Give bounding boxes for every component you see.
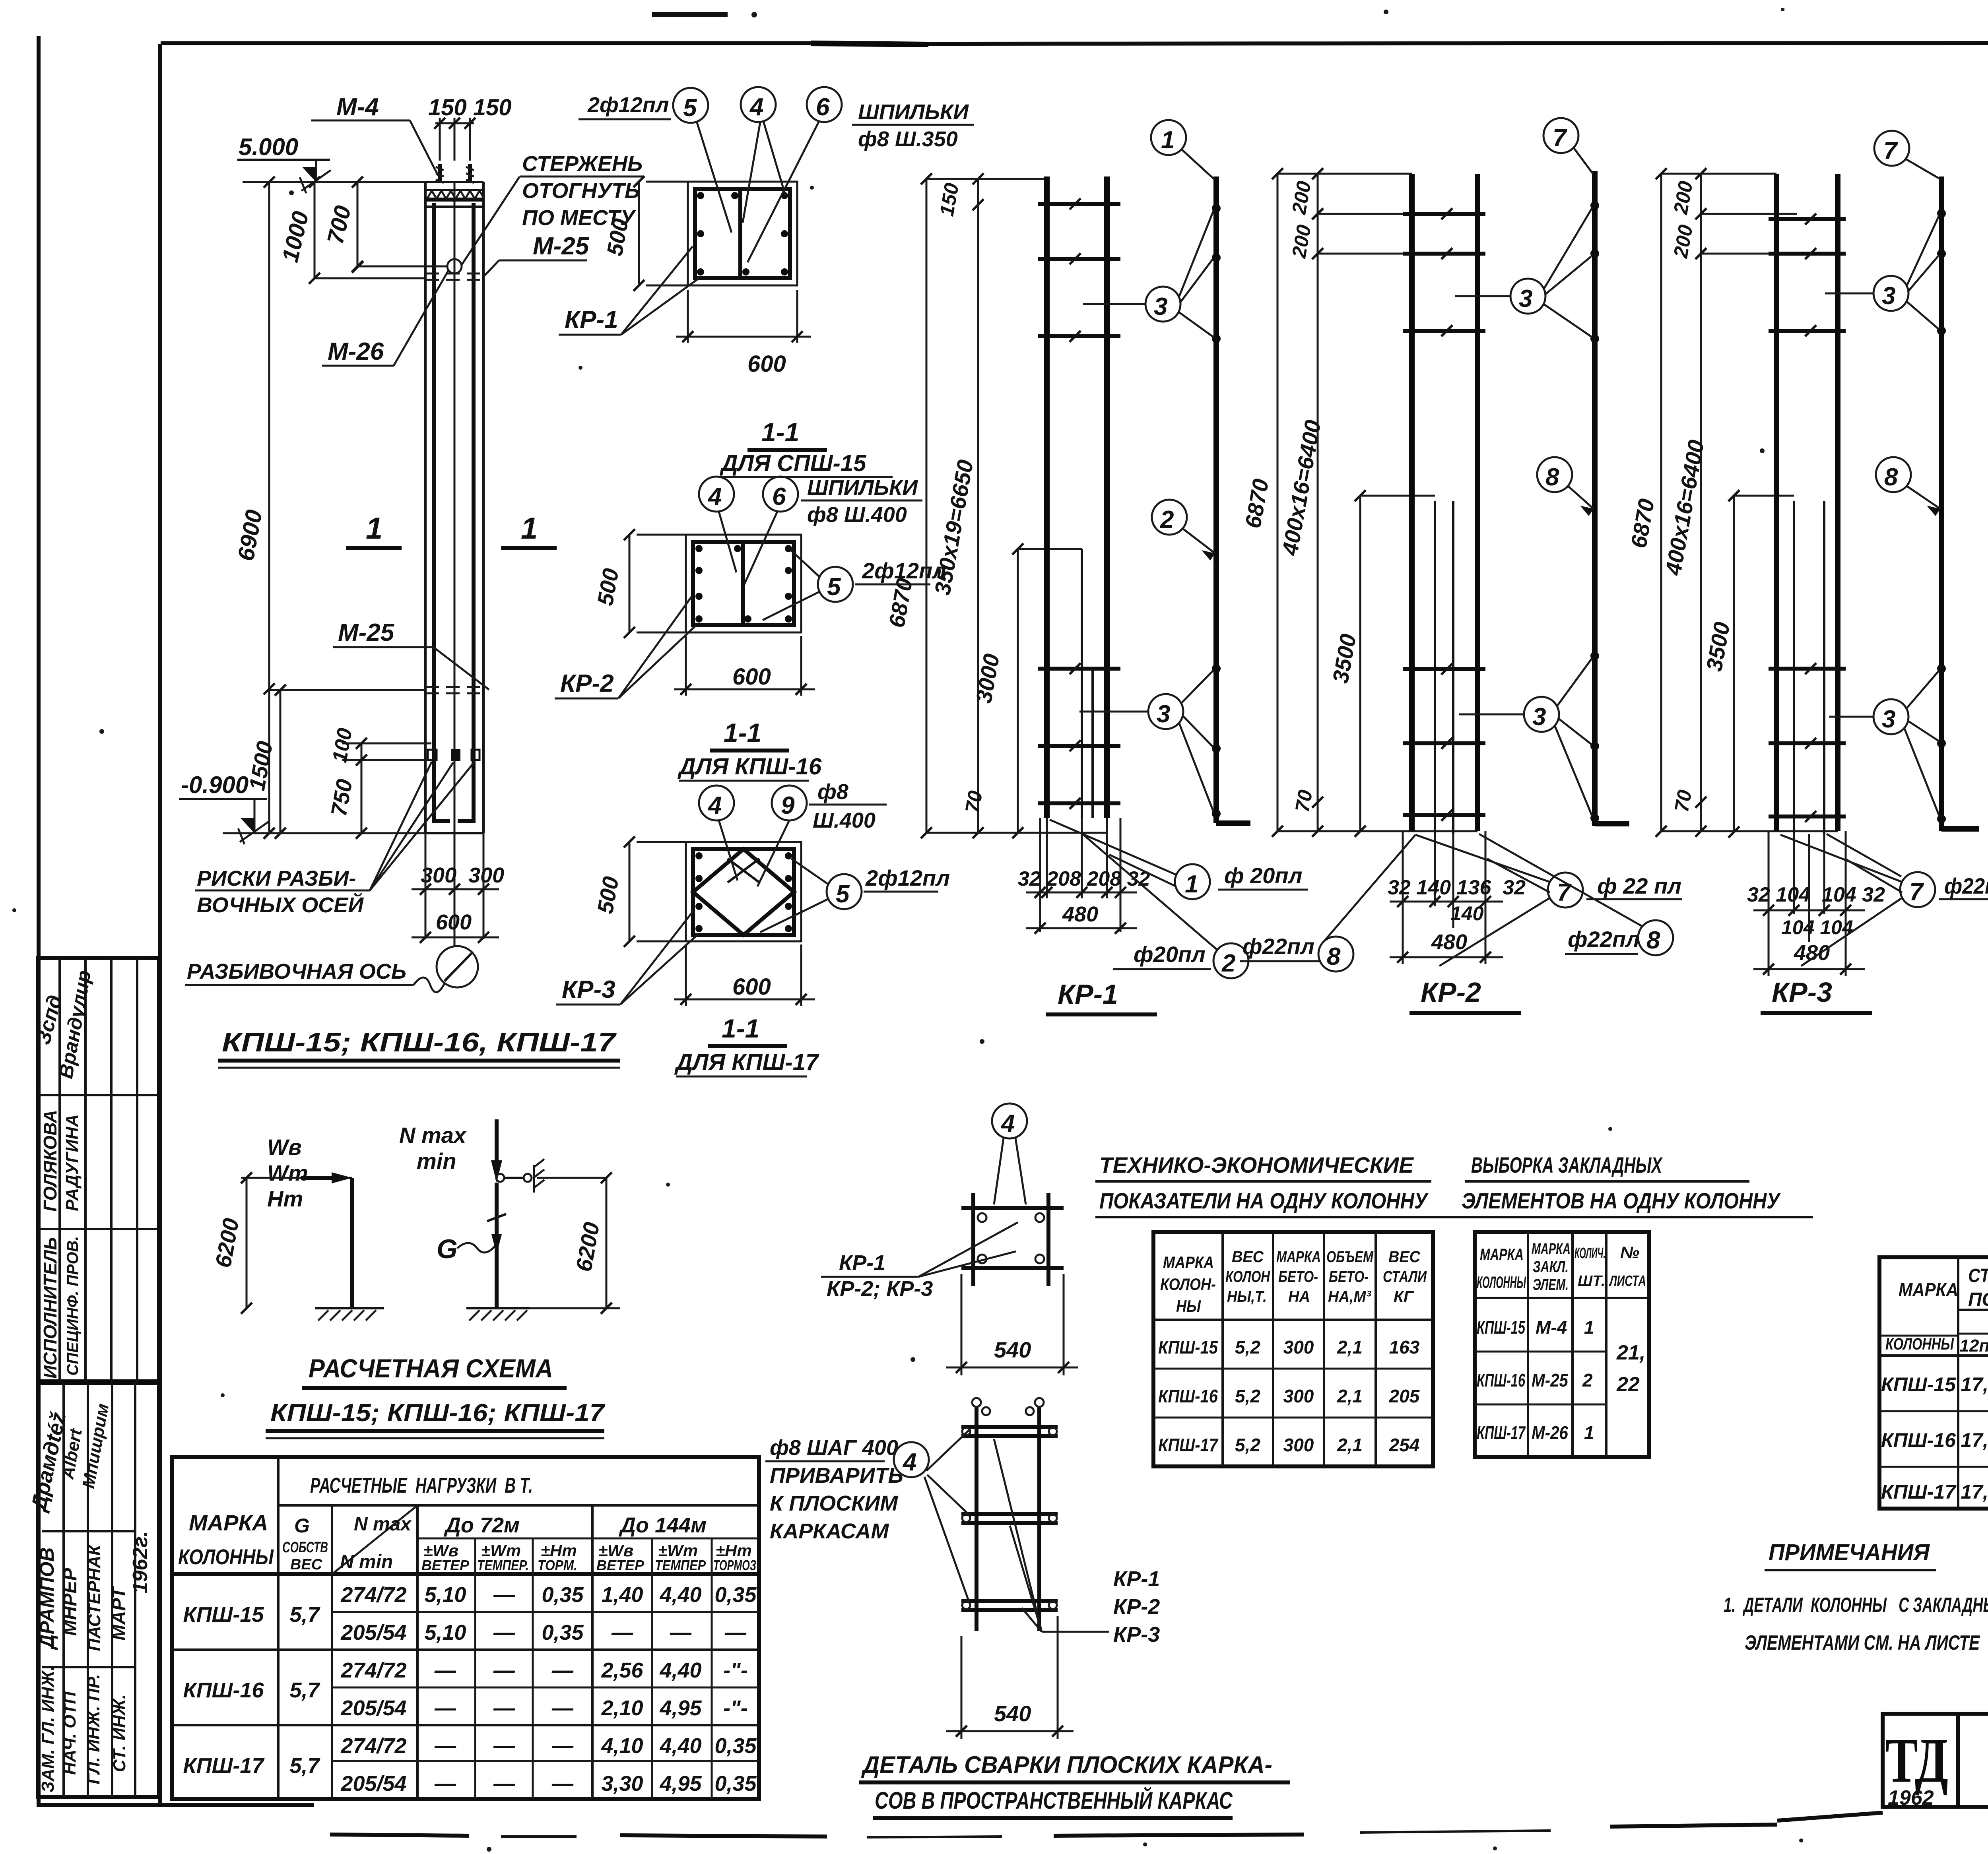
svg-text:300 300: 300 300 [421, 863, 504, 887]
rebar lines inside column [432, 203, 436, 775]
svg-text:ДЛЯ КПШ-16: ДЛЯ КПШ-16 [677, 754, 822, 780]
svg-text:274/72: 274/72 [340, 1583, 406, 1607]
circle 3 bottom [1148, 694, 1183, 729]
bottom dims 32 104 104 32 / 104 104 / 480 [1768, 831, 1770, 976]
svg-text:М-4: М-4 [1536, 1317, 1567, 1338]
bottom dims 32 208 208 32 / 480 [1039, 818, 1041, 932]
svg-text:СТАЛЬ КЛАССА А-Ш: СТАЛЬ КЛАССА А-Ш [1968, 1265, 1988, 1286]
svg-text:СТАЛИ: СТАЛИ [1383, 1268, 1427, 1286]
svg-text:КПШ-16: КПШ-16 [1881, 1429, 1956, 1451]
svg-text:ф8 ШАГ 400: ф8 ШАГ 400 [770, 1436, 898, 1460]
svg-text:254: 254 [1389, 1435, 1420, 1455]
svg-text:РАДУГИНА: РАДУГИНА [62, 1114, 82, 1211]
svg-text:РИСКИ РАЗБИ-: РИСКИ РАЗБИ- [197, 867, 356, 890]
svg-text:32 140 136 32: 32 140 136 32 [1388, 876, 1526, 899]
svg-text:ДЕТАЛЬ СВАРКИ ПЛОСКИХ КАРКА-: ДЕТАЛЬ СВАРКИ ПЛОСКИХ КАРКА- [861, 1751, 1272, 1778]
svg-text:2ф12пл: 2ф12пл [587, 93, 669, 117]
design loads table (РАСЧЕТНЫЕ НАГРУЗКИ В Т.) [172, 1457, 759, 1799]
dim 100 + 750 [361, 743, 363, 833]
svg-text:205/54: 205/54 [340, 1621, 406, 1645]
svg-text:ЗАКЛ.: ЗАКЛ. [1533, 1258, 1569, 1276]
svg-text:600: 600 [732, 664, 771, 690]
svg-text:КПШ-17: КПШ-17 [183, 1754, 265, 1778]
svg-text:ЭЛЕМ.: ЭЛЕМ. [1533, 1276, 1569, 1294]
svg-text:КПШ-16: КПШ-16 [183, 1678, 264, 1702]
svg-text:КР-1: КР-1 [1113, 1567, 1160, 1591]
svg-text:КАРКАСАМ: КАРКАСАМ [770, 1519, 889, 1543]
dim 6900 [268, 182, 270, 833]
svg-text:17,3: 17,3 [1961, 1481, 1988, 1503]
svg-text:600: 600 [732, 974, 771, 1000]
svg-text:300: 300 [1283, 1337, 1314, 1358]
svg-text:КПШ-17: КПШ-17 [1158, 1435, 1219, 1455]
svg-text:600: 600 [436, 910, 472, 934]
rungs [1038, 204, 1120, 803]
svg-text:5,10: 5,10 [424, 1583, 466, 1607]
svg-text:1: 1 [366, 512, 382, 545]
svg-text:5,2: 5,2 [1235, 1435, 1260, 1455]
svg-text:4,40: 4,40 [659, 1583, 701, 1607]
svg-text:0,35: 0,35 [542, 1583, 584, 1607]
dim 600 [685, 944, 687, 1006]
svg-text:—: — [551, 1772, 574, 1796]
svg-text:МАРКА: МАРКА [1899, 1279, 1958, 1300]
svg-text:1962: 1962 [1888, 1786, 1934, 1809]
svg-text:1. ДЕТАЛИ КОЛОННЫ С ЗАКЛАД: 1. ДЕТАЛИ КОЛОННЫ С ЗАКЛАДНЫМИ [1724, 1594, 1988, 1617]
svg-text:—: — [493, 1621, 515, 1645]
data rows [1881, 1373, 1988, 1503]
dim 1000 [314, 182, 316, 278]
svg-text:—: — [434, 1696, 456, 1720]
М-26 embed circle [447, 259, 462, 273]
svg-text:М-25: М-25 [1532, 1370, 1569, 1390]
dim 500 [629, 535, 631, 632]
svg-text:—: — [493, 1583, 515, 1607]
svg-text:СОВ В ПРОСТРАНСТВЕННЫЙ КАРКАС: СОВ В ПРОСТРАНСТВЕННЫЙ КАРКАС [875, 1787, 1233, 1814]
svg-text:ТЕХНИКО-ЭКОНОМИЧЕСКИЕ: ТЕХНИКО-ЭКОНОМИЧЕСКИЕ [1099, 1152, 1414, 1177]
svg-text:МАРКА: МАРКА [1276, 1248, 1321, 1266]
svg-text:КПШ-16: КПШ-16 [1477, 1370, 1525, 1390]
svg-text:7: 7 [1909, 879, 1924, 906]
svg-text:7: 7 [1883, 137, 1898, 165]
svg-text:0,35: 0,35 [714, 1772, 757, 1796]
svg-text:—: — [493, 1772, 515, 1796]
cage КР-3 elevation [1626, 131, 1988, 1013]
svg-text:N min: N min [340, 1551, 393, 1573]
title расчетная схема [266, 1354, 606, 1438]
svg-text:ДРАМПОВ: ДРАМПОВ [36, 1547, 58, 1650]
svg-text:ДЛЯ КПШ-17: ДЛЯ КПШ-17 [674, 1049, 819, 1075]
svg-text:2ф12пл: 2ф12пл [865, 865, 950, 890]
svg-text:СОБСТВ: СОБСТВ [282, 1539, 328, 1556]
svg-text:РАЗБИВОЧНАЯ ОСЬ: РАЗБИВОЧНАЯ ОСЬ [187, 960, 406, 983]
svg-text:—: — [611, 1621, 633, 1645]
svg-text:1-1: 1-1 [724, 718, 761, 747]
embedded elements table [1456, 1152, 1813, 1457]
splice thin bars [1081, 549, 1083, 818]
svg-text:М-4: М-4 [336, 93, 379, 121]
dashed М-25 plate bottom [425, 687, 483, 693]
leader circle 1 bottom + ф 20пл [1175, 864, 1210, 899]
svg-text:КПШ-17: КПШ-17 [1881, 1481, 1957, 1503]
svg-text:ВЕТЕР: ВЕТЕР [596, 1557, 645, 1573]
svg-text:8: 8 [1646, 927, 1660, 954]
svg-text:ГОЛЯКОВА: ГОЛЯКОВА [40, 1110, 60, 1212]
svg-text:КПШ-15: КПШ-15 [1477, 1317, 1526, 1338]
svg-text:0,35: 0,35 [714, 1734, 757, 1758]
cage КР-1 elevation [884, 120, 1415, 1014]
svg-text:17,3: 17,3 [1961, 1373, 1988, 1396]
svg-text:1-1: 1-1 [761, 417, 799, 447]
svg-text:КПШ-15; КПШ-16; КПШ-17: КПШ-15; КПШ-16; КПШ-17 [270, 1399, 606, 1427]
svg-text:3: 3 [1882, 282, 1895, 310]
svg-text:КР-3: КР-3 [1772, 977, 1832, 1008]
svg-text:3: 3 [1157, 700, 1170, 728]
svg-text:300: 300 [1283, 1386, 1314, 1406]
svg-text:1: 1 [1584, 1317, 1594, 1338]
svg-text:КР-3: КР-3 [562, 976, 615, 1003]
svg-text:-"-: -"- [723, 1658, 748, 1682]
circle 1 top [1151, 120, 1186, 155]
section 1-1 for КПШ-17 [556, 780, 950, 1076]
svg-text:БЕТО-: БЕТО- [1278, 1268, 1318, 1286]
svg-text:ТД: ТД [1885, 1725, 1948, 1796]
svg-text:КР-1: КР-1 [839, 1251, 885, 1275]
svg-text:КОЛОННЫ: КОЛОННЫ [178, 1545, 274, 1569]
svg-text:4: 4 [707, 483, 722, 510]
svg-text:5: 5 [836, 880, 850, 908]
svg-text:600: 600 [747, 351, 786, 377]
svg-text:3: 3 [1154, 293, 1167, 320]
svg-text:КР-2; КР-3: КР-2; КР-3 [827, 1277, 933, 1301]
svg-text:3: 3 [1519, 285, 1532, 312]
svg-text:4,10: 4,10 [601, 1734, 643, 1758]
bottom dims 32 140 136 32 / 140 / 480 [1402, 831, 1404, 964]
svg-text:КПШ-15: КПШ-15 [183, 1603, 264, 1627]
svg-text:104 104: 104 104 [1781, 916, 1853, 939]
svg-text:ф20пл: ф20пл [1134, 942, 1206, 967]
svg-text:ф8: ф8 [817, 780, 848, 804]
svg-text:КОЛИЧ.: КОЛИЧ. [1574, 1245, 1606, 1262]
svg-text:ШТ.: ШТ. [1578, 1273, 1606, 1290]
svg-text:М-26: М-26 [328, 338, 384, 365]
dim 500 [629, 842, 631, 941]
svg-text:540: 540 [994, 1337, 1031, 1362]
svg-text:ВЕТЕР: ВЕТЕР [421, 1557, 470, 1573]
svg-text:4,95: 4,95 [659, 1772, 702, 1796]
svg-text:1: 1 [1185, 871, 1198, 898]
svg-text:480: 480 [1794, 941, 1830, 965]
svg-text:ПАСТЕРНАК: ПАСТЕРНАК [85, 1544, 104, 1651]
svg-text:—: — [670, 1621, 692, 1645]
svg-text:5: 5 [683, 94, 697, 122]
svg-text:5,7: 5,7 [289, 1678, 320, 1702]
svg-text:КР-2: КР-2 [1113, 1595, 1160, 1619]
spatial cage welding detail (bottom) [765, 1398, 1290, 1818]
diamond [693, 849, 794, 935]
svg-text:ПО ГОСТ 5781- 61: ПО ГОСТ 5781- 61 [1968, 1289, 1988, 1310]
svg-text:32 104 104 32: 32 104 104 32 [1747, 883, 1885, 906]
svg-text:МАРКА: МАРКА [1480, 1245, 1524, 1264]
svg-text:ВОЧНЫХ ОСЕЙ: ВОЧНЫХ ОСЕЙ [197, 892, 364, 917]
svg-text:150 150: 150 150 [428, 95, 512, 120]
svg-text:ЭЛЕМЕНТОВ НА ОДНУ КОЛОННУ: ЭЛЕМЕНТОВ НА ОДНУ КОЛОННУ [1462, 1188, 1781, 1213]
svg-text:8: 8 [1884, 463, 1898, 491]
svg-text:КПШ-15: КПШ-15 [1881, 1373, 1956, 1396]
svg-text:ОТОГНУТЬ: ОТОГНУТЬ [522, 179, 640, 203]
svg-text:НА: НА [1288, 1288, 1310, 1305]
svg-text:КОЛОН-: КОЛОН- [1160, 1275, 1216, 1294]
svg-text:Hт: Hт [267, 1186, 303, 1211]
svg-text:12пл: 12пл [1959, 1336, 1988, 1356]
svg-text:ТОРМОЗ: ТОРМОЗ [713, 1557, 756, 1573]
svg-text:МНРЕР: МНРЕР [60, 1568, 81, 1636]
svg-text:ЭЛЕМЕНТАМИ СМ. НА ЛИСТЕ 20.: ЭЛЕМЕНТАМИ СМ. НА ЛИСТЕ 20. [1745, 1631, 1988, 1654]
svg-text:-0.900: -0.900 [181, 772, 248, 798]
dim 600 below [687, 290, 689, 343]
svg-text:4,40: 4,40 [659, 1734, 701, 1758]
svg-text:8: 8 [1545, 463, 1559, 491]
svg-text:ф22пл: ф22пл [1568, 927, 1640, 952]
pair bars [1409, 174, 1415, 831]
svg-text:163: 163 [1389, 1337, 1420, 1358]
svg-text:КОЛОННЫ: КОЛОННЫ [1477, 1273, 1526, 1292]
svg-text:70: 70 [1291, 788, 1317, 814]
title block bottom right [1883, 1714, 1988, 1809]
steel summary table (ВЫБОРКА СТАЛИ НА ОДНУ КОЛОННУ) [1879, 1189, 1988, 1509]
svg-text:НЫ: НЫ [1176, 1297, 1201, 1315]
svg-text:1: 1 [1161, 126, 1175, 154]
svg-text:ф8 Ш.400: ф8 Ш.400 [807, 503, 907, 527]
svg-text:70: 70 [961, 789, 987, 815]
svg-text:ПРИВАРИТЬ: ПРИВАРИТЬ [770, 1464, 903, 1487]
section 1-1 for СПШ-15 [559, 87, 974, 477]
dim 6870 [926, 179, 928, 833]
calculation scheme diagram 1 (cantilever with Wв Wт Hт) [210, 1135, 384, 1321]
svg-text:КПШ-17: КПШ-17 [1477, 1422, 1526, 1443]
svg-text:НАЧ. ОТП: НАЧ. ОТП [60, 1691, 80, 1775]
svg-text:6: 6 [816, 93, 830, 121]
svg-text:0,35: 0,35 [714, 1583, 757, 1607]
svg-text:1: 1 [1584, 1422, 1594, 1443]
svg-text:КГ: КГ [1394, 1288, 1414, 1305]
svg-text:РАСЧЕТНАЯ СХЕМА: РАСЧЕТНАЯ СХЕМА [309, 1354, 553, 1383]
page left edge line [37, 36, 41, 1807]
svg-text:РАСЧЕТНЫЕ НАГРУЗКИ В Т.: РАСЧЕТНЫЕ НАГРУЗКИ В Т. [310, 1474, 533, 1497]
dim 540 [961, 1274, 963, 1375]
svg-text:ДЛЯ СПШ-15: ДЛЯ СПШ-15 [719, 450, 866, 476]
svg-text:КР-3: КР-3 [1113, 1623, 1160, 1646]
svg-text:СТ. ИНЖ.: СТ. ИНЖ. [110, 1694, 129, 1772]
svg-text:№: № [1620, 1243, 1639, 1262]
column body outline [424, 182, 427, 833]
dim 350x19=6650 [977, 179, 979, 833]
bottom hooks [434, 775, 474, 821]
top anchor plate М-4 hatched band [425, 189, 483, 191]
svg-text:СПЕЦИНФ. ПРОВ.: СПЕЦИНФ. ПРОВ. [64, 1236, 82, 1375]
svg-text:ВЕС: ВЕС [1232, 1248, 1264, 1266]
pair bars [1774, 174, 1779, 831]
svg-text:ТЕМПЕР: ТЕМПЕР [655, 1557, 706, 1573]
svg-text:2,1: 2,1 [1337, 1435, 1363, 1455]
svg-text:2: 2 [1582, 1370, 1593, 1390]
svg-text:До 144м: До 144м [619, 1513, 707, 1537]
svg-text:КПШ-15: КПШ-15 [1158, 1337, 1218, 1358]
svg-text:ф22пл: ф22пл [1242, 934, 1314, 959]
horizontals [1879, 1310, 1988, 1356]
svg-text:ТОРМ.: ТОРМ. [538, 1557, 577, 1573]
svg-text:МАРКА: МАРКА [189, 1510, 268, 1535]
svg-text:205/54: 205/54 [340, 1696, 406, 1720]
svg-text:До 72м: До 72м [444, 1513, 520, 1537]
svg-text:-"-: -"- [723, 1696, 748, 1720]
svg-text:—: — [434, 1772, 456, 1796]
circle 3 top [1145, 287, 1180, 322]
pair bars [1044, 176, 1050, 818]
svg-text:5,2: 5,2 [1235, 1386, 1260, 1406]
svg-text:ПРИМЕЧАНИЯ: ПРИМЕЧАНИЯ [1769, 1540, 1930, 1565]
svg-text:МАРКА: МАРКА [1532, 1240, 1571, 1258]
svg-text:М-25: М-25 [533, 233, 590, 260]
svg-text:1-1: 1-1 [722, 1014, 759, 1043]
dim 700 [357, 182, 359, 267]
svg-text:4: 4 [902, 1449, 916, 1476]
svg-text:2: 2 [1160, 506, 1174, 533]
svg-text:205/54: 205/54 [340, 1772, 406, 1796]
svg-text:ВЫБОРКА ЗАКЛАДНЫХ: ВЫБОРКА ЗАКЛАДНЫХ [1471, 1152, 1663, 1177]
svg-text:—: — [493, 1696, 515, 1720]
anchor bolts [436, 164, 474, 183]
circle 7 + ф22пл [1900, 872, 1935, 907]
svg-text:—: — [551, 1696, 574, 1720]
svg-text:Wв: Wв [267, 1135, 302, 1160]
svg-text:2,10: 2,10 [601, 1696, 643, 1720]
svg-text:2,56: 2,56 [601, 1658, 643, 1682]
dim 3000 [1017, 549, 1019, 833]
svg-text:480: 480 [1062, 902, 1098, 926]
svg-text:22: 22 [1616, 1373, 1640, 1396]
svg-text:32 208 208 32: 32 208 208 32 [1018, 867, 1150, 890]
svg-text:СТЕРЖЕНЬ: СТЕРЖЕНЬ [522, 152, 643, 176]
circle 7 + ф 22 пл [1548, 873, 1583, 908]
circle 2 mid [1152, 500, 1187, 535]
svg-text:ЗАМ. ГЛ. ИНЖ.: ЗАМ. ГЛ. ИНЖ. [38, 1666, 58, 1793]
svg-text:4,95: 4,95 [659, 1696, 702, 1720]
svg-text:5.000: 5.000 [239, 134, 298, 160]
technical-economic indicators table [1095, 1152, 1463, 1466]
svg-text:2,1: 2,1 [1337, 1337, 1363, 1358]
svg-text:—: — [551, 1658, 574, 1682]
svg-text:М-26: М-26 [1532, 1422, 1568, 1443]
svg-text:ТЕМПЕР.: ТЕМПЕР. [477, 1557, 529, 1573]
verticals [1958, 1257, 1988, 1509]
cage КР-2 elevation [1240, 118, 1682, 1013]
svg-text:Wт: Wт [267, 1160, 308, 1185]
svg-text:N max: N max [354, 1514, 412, 1535]
svg-text:4: 4 [707, 792, 722, 819]
svg-text:ВЕС: ВЕС [290, 1556, 322, 1573]
svg-text:ПОКАЗАТЕЛИ НА ОДНУ КОЛОННУ: ПОКАЗАТЕЛИ НА ОДНУ КОЛОННУ [1099, 1188, 1429, 1213]
svg-text:min: min [417, 1148, 456, 1173]
svg-text:—: — [434, 1734, 456, 1758]
svg-text:МАРКА: МАРКА [1163, 1253, 1214, 1272]
svg-text:5,2: 5,2 [1235, 1337, 1260, 1358]
svg-text:КОЛОН: КОЛОН [1225, 1268, 1270, 1286]
svg-text:7: 7 [1553, 124, 1567, 152]
svg-text:70: 70 [1670, 788, 1696, 814]
svg-text:БЕТО-: БЕТО- [1329, 1268, 1369, 1286]
signature stamp strip (left margin, rotated title block) [26, 958, 159, 1797]
svg-text:КР-1: КР-1 [1058, 979, 1118, 1010]
dim 500 (left) [638, 182, 640, 285]
svg-text:ВЕС: ВЕС [1388, 1248, 1421, 1266]
svg-text:9: 9 [781, 792, 795, 819]
svg-text:8: 8 [1327, 943, 1341, 970]
svg-text:ЛИСТА: ЛИСТА [1609, 1273, 1646, 1290]
svg-text:3,30: 3,30 [601, 1772, 643, 1796]
svg-text:КР-2: КР-2 [560, 670, 614, 697]
svg-text:—: — [551, 1734, 574, 1758]
svg-text:ф22пл: ф22пл [1944, 873, 1988, 898]
svg-text:ф8 Ш.350: ф8 Ш.350 [858, 127, 958, 151]
svg-text:КОЛОННЫ: КОЛОННЫ [1885, 1334, 1954, 1353]
svg-text:N max: N max [399, 1123, 467, 1148]
svg-text:1,40: 1,40 [601, 1583, 643, 1607]
svg-text:—: — [493, 1658, 515, 1682]
svg-text:480: 480 [1431, 930, 1467, 954]
svg-text:ШПИЛЬКИ: ШПИЛЬКИ [858, 100, 969, 124]
section 1-1 for КПШ-16 [555, 476, 946, 781]
svg-text:5,7: 5,7 [289, 1603, 320, 1627]
svg-text:540: 540 [994, 1701, 1031, 1726]
embed plates (риски) [428, 750, 437, 760]
dashed М-25 plate top [425, 273, 483, 280]
svg-text:G: G [294, 1515, 310, 1537]
svg-text:ШПИЛЬКИ: ШПИЛЬКИ [807, 476, 918, 500]
svg-text:ф 22 пл: ф 22 пл [1597, 873, 1681, 898]
svg-text:ИСПОЛНИТЕЛЬ: ИСПОЛНИТЕЛЬ [40, 1237, 60, 1379]
dim 540 [961, 1636, 963, 1739]
svg-text:4,40: 4,40 [659, 1658, 701, 1682]
lone bar pos7 with foot [1939, 176, 1944, 831]
svg-text:3: 3 [1882, 706, 1895, 733]
svg-text:1962г.: 1962г. [129, 1531, 152, 1593]
svg-text:4: 4 [749, 93, 763, 121]
svg-text:КР-1: КР-1 [565, 306, 618, 334]
svg-text:G: G [437, 1234, 458, 1264]
svg-text:1: 1 [521, 512, 538, 545]
svg-text:НА,М³: НА,М³ [1328, 1288, 1372, 1305]
svg-text:3: 3 [1532, 703, 1546, 731]
notes примечания [1724, 1540, 1988, 1654]
scan specks [652, 12, 728, 17]
dim 1500 [280, 690, 282, 833]
lone bar pos7 with foot [1592, 171, 1598, 826]
svg-text:КР-2: КР-2 [1421, 977, 1481, 1008]
svg-text:205: 205 [1389, 1386, 1420, 1406]
svg-text:21,: 21, [1616, 1341, 1645, 1364]
svg-text:4: 4 [1000, 1110, 1015, 1137]
svg-text:ф 20пл: ф 20пл [1224, 863, 1302, 888]
svg-text:5: 5 [827, 573, 841, 601]
svg-text:НЫ,Т.: НЫ,Т. [1227, 1288, 1267, 1305]
svg-text:274/72: 274/72 [340, 1658, 406, 1682]
svg-text:ГЛ. ИНЖ. ПР.: ГЛ. ИНЖ. ПР. [84, 1674, 103, 1784]
column elevation (top-left) [179, 93, 644, 1068]
svg-text:2,1: 2,1 [1337, 1386, 1363, 1406]
svg-text:2: 2 [1221, 950, 1235, 977]
svg-text:5,7: 5,7 [289, 1754, 320, 1778]
